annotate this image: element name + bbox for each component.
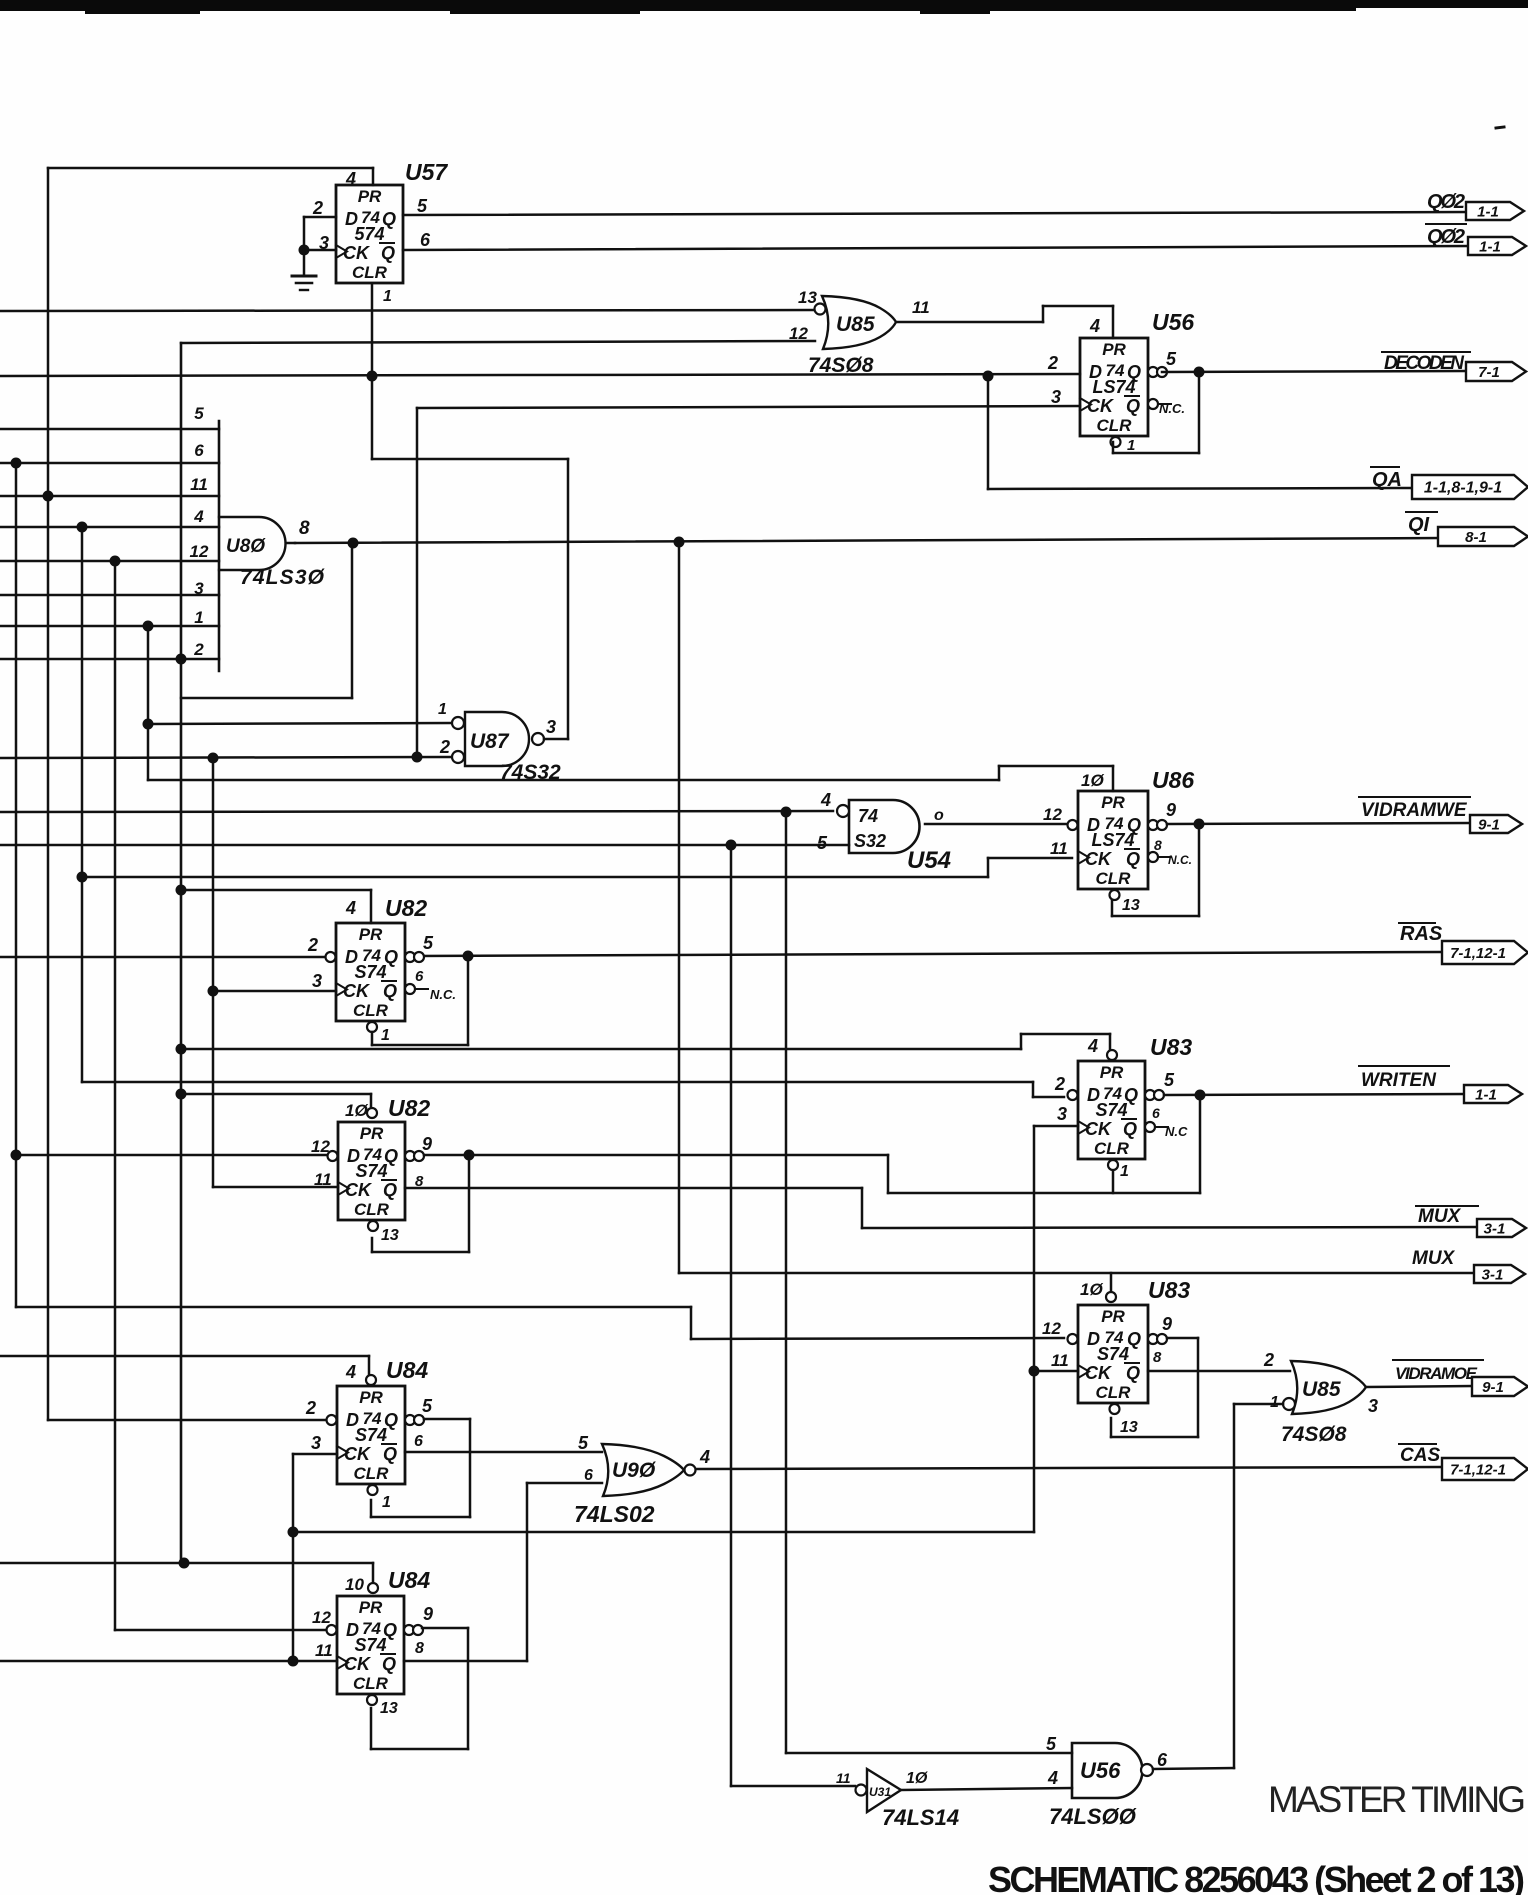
wire: input 12 from U8C bus top bbox=[181, 341, 815, 343]
label QI bbox=[1406, 511, 1437, 513]
vertical bus x16 bbox=[15, 463, 18, 1307]
svg-text:CK: CK bbox=[345, 1180, 373, 1200]
svg-text:10: 10 bbox=[345, 1575, 364, 1594]
wire: U87 output up to U57 CLR rail bbox=[544, 738, 568, 741]
flag QI 8-1 bbox=[1438, 527, 1528, 546]
svg-text:12: 12 bbox=[1042, 1319, 1061, 1338]
stray mark bbox=[1496, 127, 1504, 128]
svg-text:1: 1 bbox=[382, 1494, 391, 1511]
svg-text:9-1: 9-1 bbox=[1482, 1379, 1504, 1396]
svg-text:U83: U83 bbox=[1148, 1277, 1190, 1303]
svg-text:Q: Q bbox=[383, 1180, 397, 1200]
svg-text:12: 12 bbox=[311, 1137, 330, 1156]
wire: U83b PR stub bbox=[1110, 1273, 1113, 1292]
wire: net to U57 PR pin 4 bbox=[48, 167, 373, 170]
svg-text:4: 4 bbox=[1047, 1768, 1058, 1788]
wire: U84a CK input bbox=[293, 1453, 337, 1456]
wire: U82b D input bbox=[16, 1154, 327, 1157]
svg-text:5: 5 bbox=[578, 1433, 589, 1453]
svg-text:CLR: CLR bbox=[354, 1464, 390, 1483]
svg-text:8: 8 bbox=[1153, 1349, 1162, 1366]
wire: U31 input bbox=[731, 1785, 855, 1788]
svg-text:3: 3 bbox=[1051, 387, 1061, 407]
svg-text:574: 574 bbox=[354, 224, 384, 244]
svg-text:S74: S74 bbox=[355, 1161, 387, 1181]
svg-text:CLR: CLR bbox=[1097, 416, 1133, 435]
svg-text:S74: S74 bbox=[1097, 1344, 1129, 1364]
vertical rail x293 bbox=[292, 1454, 295, 1661]
wire: U57 Qbar to QP2bar flag bbox=[403, 246, 1473, 250]
wire: input 13 bbox=[0, 310, 814, 311]
svg-text:U9Ø: U9Ø bbox=[612, 1459, 656, 1482]
svg-text:11: 11 bbox=[836, 1770, 851, 1786]
svg-text:Q: Q bbox=[1126, 849, 1140, 869]
flag DECODEN 7-1 bbox=[1466, 362, 1526, 381]
svg-text:1: 1 bbox=[194, 608, 203, 627]
svg-text:1: 1 bbox=[1120, 1163, 1129, 1180]
wire: U82 D input bbox=[0, 956, 325, 959]
label QA bbox=[1371, 466, 1399, 468]
gate U56 (74LS00) bbox=[1072, 1743, 1142, 1798]
flag MUX 3-1 bbox=[1477, 1219, 1526, 1237]
svg-text:CLR: CLR bbox=[353, 1674, 389, 1693]
svg-text:QI: QI bbox=[1408, 514, 1430, 536]
svg-text:CK: CK bbox=[343, 243, 371, 263]
svg-text:6: 6 bbox=[414, 1433, 423, 1450]
svg-text:S32: S32 bbox=[854, 831, 886, 851]
wire: U31 output to U56 pin 4 bbox=[901, 1788, 1072, 1790]
svg-text:5: 5 bbox=[1046, 1734, 1057, 1754]
label WRITEN bbox=[1359, 1065, 1449, 1067]
flag QA 1-1,8-1,9-1 bbox=[1412, 475, 1528, 499]
svg-text:RAS: RAS bbox=[1400, 923, 1443, 945]
wire: U56 CLR loop bbox=[1112, 442, 1115, 453]
wire: U84a D input from x48 rail bbox=[48, 1419, 326, 1422]
svg-text:74LS3Ø: 74LS3Ø bbox=[240, 566, 325, 589]
svg-text:12: 12 bbox=[312, 1608, 331, 1627]
svg-text:8: 8 bbox=[299, 518, 310, 539]
svg-text:7-1,12-1: 7-1,12-1 bbox=[1450, 945, 1506, 962]
svg-text:4: 4 bbox=[345, 1362, 356, 1382]
svg-text:U82: U82 bbox=[385, 895, 427, 921]
wire: QI from U8C output bbox=[295, 538, 1442, 543]
svg-text:11: 11 bbox=[1050, 839, 1068, 858]
label VIDRAMOE bbox=[1393, 1359, 1483, 1361]
wire: U87 pin 2 input rail bbox=[0, 757, 452, 758]
gate U85 (74S08) bottom bbox=[1291, 1361, 1366, 1414]
wire: U83 CLR loop and tie to U82 Q9 bbox=[1112, 1172, 1115, 1193]
svg-text:1: 1 bbox=[1270, 1394, 1279, 1411]
wire: U83b Qbar to U85 pin 2 bbox=[1148, 1370, 1290, 1373]
svg-text:1: 1 bbox=[438, 701, 447, 718]
svg-text:2: 2 bbox=[1047, 353, 1058, 373]
svg-text:3: 3 bbox=[312, 971, 322, 991]
svg-text:74: 74 bbox=[858, 806, 878, 826]
junction dots on left bus bbox=[11, 458, 22, 469]
flip-flop U83b (74S74) bbox=[1068, 1305, 1168, 1414]
svg-text:3: 3 bbox=[546, 717, 556, 737]
svg-text:PR: PR bbox=[359, 1598, 383, 1617]
svg-text:MUX: MUX bbox=[1412, 1248, 1456, 1269]
svg-text:6: 6 bbox=[584, 1467, 593, 1484]
svg-text:4: 4 bbox=[345, 898, 356, 918]
svg-text:U8Ø: U8Ø bbox=[226, 536, 266, 557]
vertical CK net x1034 bbox=[1033, 1126, 1036, 1532]
vertical rail x731 bbox=[730, 845, 733, 1786]
wire: U83b D input bbox=[16, 1306, 691, 1309]
svg-text:PR: PR bbox=[359, 925, 383, 944]
wire: U56 output up to U85b pin 1 bbox=[1153, 1768, 1234, 1769]
wire: U83b Q loop bbox=[1167, 1337, 1198, 1340]
wire: U84b CK input rail / Qbar out bbox=[0, 1660, 337, 1663]
svg-text:Q: Q bbox=[1126, 396, 1140, 416]
svg-text:6: 6 bbox=[194, 441, 204, 460]
svg-text:2: 2 bbox=[307, 935, 318, 955]
wire: MUX2 from x679 rail bbox=[679, 1272, 1474, 1275]
svg-text:3: 3 bbox=[1368, 1396, 1378, 1416]
svg-text:4: 4 bbox=[1087, 1036, 1098, 1056]
label VIDRAMWE bbox=[1359, 796, 1470, 798]
gate U8C body bbox=[219, 517, 286, 570]
flag RAS 7-1,12-1 bbox=[1442, 941, 1528, 964]
flag WRITEN 1-1 bbox=[1464, 1085, 1522, 1103]
label MUX overlined bbox=[1416, 1205, 1478, 1207]
svg-text:N.C.: N.C. bbox=[430, 987, 456, 1002]
svg-text:QØ2: QØ2 bbox=[1427, 226, 1465, 248]
wire: U84b D input from x115 rail bbox=[115, 1629, 326, 1632]
svg-text:DECODEN: DECODEN bbox=[1384, 353, 1465, 374]
wire: U86 PR rail bbox=[148, 779, 999, 782]
svg-text:9-1: 9-1 bbox=[1478, 817, 1500, 834]
inverter U31 (74LS14) bbox=[867, 1769, 901, 1812]
svg-text:CK: CK bbox=[344, 1444, 372, 1464]
wire: U84a Q loop bbox=[424, 1418, 470, 1421]
svg-text:11: 11 bbox=[912, 298, 930, 317]
svg-text:74LS14: 74LS14 bbox=[882, 1805, 959, 1830]
svg-text:PR: PR bbox=[1101, 1307, 1125, 1326]
svg-text:Q: Q bbox=[1127, 1329, 1141, 1349]
U8C input wires bbox=[0, 428, 219, 431]
wire: U82 second PR rail bbox=[181, 1093, 371, 1096]
svg-text:N.C.: N.C. bbox=[1159, 401, 1185, 416]
vertical rail x352 U8C loop bbox=[351, 543, 354, 698]
svg-text:1: 1 bbox=[381, 1027, 390, 1044]
svg-text:2: 2 bbox=[1054, 1074, 1065, 1094]
svg-text:11: 11 bbox=[315, 1641, 333, 1660]
wire: QA branch bbox=[987, 376, 990, 489]
flag MUX2 3-1 bbox=[1474, 1265, 1525, 1283]
svg-text:U83: U83 bbox=[1150, 1034, 1192, 1060]
svg-text:CAS: CAS bbox=[1400, 1445, 1440, 1466]
svg-text:13: 13 bbox=[1122, 897, 1140, 914]
svg-text:3-1: 3-1 bbox=[1482, 1267, 1504, 1284]
wire: U90 pin 6 loop from U84b Qbar bbox=[527, 1482, 602, 1485]
svg-text:VIDRAMOE: VIDRAMOE bbox=[1395, 1364, 1478, 1383]
svg-text:U85: U85 bbox=[836, 313, 875, 336]
wire: U82b Q out to U83 CLR net bbox=[424, 1154, 888, 1157]
svg-text:WRITEN: WRITEN bbox=[1361, 1070, 1437, 1091]
svg-text:Q: Q bbox=[383, 1444, 397, 1464]
svg-text:5: 5 bbox=[194, 404, 204, 423]
svg-text:1Ø: 1Ø bbox=[1081, 771, 1104, 790]
svg-text:U56: U56 bbox=[1080, 1758, 1121, 1783]
svg-text:74LS02: 74LS02 bbox=[574, 1501, 655, 1527]
svg-text:U82: U82 bbox=[388, 1095, 430, 1121]
svg-text:PR: PR bbox=[1102, 340, 1126, 359]
flip-flop U56 (74LS74) bbox=[1080, 338, 1171, 447]
svg-text:12: 12 bbox=[190, 542, 209, 561]
wire: U56 Q pin 5 to DECODEN flag bbox=[1162, 371, 1466, 372]
svg-text:QA: QA bbox=[1372, 469, 1402, 491]
svg-text:74LSØØ: 74LSØØ bbox=[1049, 1804, 1137, 1829]
svg-text:5: 5 bbox=[417, 196, 428, 216]
svg-text:2: 2 bbox=[439, 737, 450, 757]
flag VIDRAMWE 9-1 bbox=[1470, 815, 1522, 833]
svg-text:U84: U84 bbox=[386, 1357, 428, 1383]
svg-text:1-1: 1-1 bbox=[1477, 204, 1499, 221]
vertical rail x679 from QI net bbox=[678, 542, 681, 1273]
svg-text:4: 4 bbox=[699, 1447, 710, 1467]
svg-text:4: 4 bbox=[193, 507, 204, 526]
svg-text:9: 9 bbox=[1166, 800, 1176, 820]
wire: U57 CLR net jog to U87 output rail bbox=[372, 458, 568, 461]
wire: U83 Q pin 5 to WRITEN flag bbox=[1164, 1094, 1464, 1095]
svg-text:3: 3 bbox=[1057, 1104, 1067, 1124]
svg-text:1: 1 bbox=[383, 288, 392, 305]
svg-text:U87: U87 bbox=[470, 730, 510, 753]
svg-text:U56: U56 bbox=[1152, 309, 1194, 335]
svg-text:1-1,8-1,9-1: 1-1,8-1,9-1 bbox=[1424, 480, 1502, 497]
flag VIDRAMOE 9-1 bbox=[1472, 1377, 1528, 1396]
ground bbox=[303, 250, 306, 275]
gate U90 (74LS02) bbox=[602, 1444, 684, 1496]
svg-text:QØ2: QØ2 bbox=[1427, 191, 1465, 213]
svg-text:5: 5 bbox=[1166, 349, 1177, 369]
svg-text:9: 9 bbox=[1162, 1314, 1172, 1334]
vertical bus x213 bbox=[212, 758, 215, 1187]
svg-text:PR: PR bbox=[359, 1388, 383, 1407]
svg-text:Q: Q bbox=[382, 1654, 396, 1674]
svg-text:1Ø: 1Ø bbox=[345, 1101, 368, 1120]
label QP2bar bbox=[1426, 223, 1466, 225]
svg-text:SCHEMATIC 8256043 (Sheet 2 of: SCHEMATIC 8256043 (Sheet 2 of 13) bbox=[988, 1859, 1525, 1895]
svg-text:5: 5 bbox=[1164, 1070, 1175, 1090]
svg-text:2: 2 bbox=[312, 198, 323, 218]
gate U8C (74LS30) input grid bbox=[180, 343, 183, 1563]
svg-text:U84: U84 bbox=[388, 1567, 430, 1593]
wire: U82 CK input bbox=[213, 990, 336, 993]
svg-text:8: 8 bbox=[1154, 837, 1162, 853]
wire: U57 CK input bbox=[304, 249, 336, 252]
svg-text:PR: PR bbox=[358, 187, 382, 206]
wire: U57 D input bbox=[304, 216, 336, 219]
svg-text:U86: U86 bbox=[1152, 767, 1194, 793]
vertical rail x786 bbox=[785, 812, 788, 1753]
svg-text:CLR: CLR bbox=[1096, 869, 1132, 888]
svg-text:Q: Q bbox=[381, 243, 395, 263]
scan artifact top bar bbox=[0, 0, 1528, 14]
wire: U82b CLR loop bbox=[371, 1238, 374, 1252]
wire: U82 PR pin 4 net bbox=[181, 889, 371, 892]
svg-text:7-1: 7-1 bbox=[1478, 364, 1500, 381]
svg-text:CLR: CLR bbox=[354, 1200, 390, 1219]
wire: U83 PR rail bbox=[181, 1048, 1021, 1051]
wire: U83b CK input bbox=[1034, 1370, 1078, 1373]
flip-flop U86 (74LS74) bbox=[1068, 791, 1172, 900]
flip-flop U83a (74S74) bbox=[1068, 1061, 1169, 1170]
wire: U85b pin1 net from U56 NAND output bbox=[1234, 1403, 1283, 1406]
wire: U84a Qbar to U90 pin 5 bbox=[405, 1451, 602, 1454]
svg-text:CK: CK bbox=[1085, 1363, 1113, 1383]
wire: U56 CK pin 3 net from U57 CLR rail bbox=[417, 406, 1080, 408]
flag QP2bar 1-1 bbox=[1468, 237, 1526, 255]
wire: U85 out to U56 PR bbox=[896, 321, 1043, 324]
svg-text:6: 6 bbox=[420, 230, 431, 250]
svg-text:2: 2 bbox=[305, 1398, 316, 1418]
svg-text:8: 8 bbox=[415, 1640, 424, 1657]
svg-text:CK: CK bbox=[1085, 1119, 1113, 1139]
svg-text:CLR: CLR bbox=[353, 1001, 389, 1020]
svg-text:13: 13 bbox=[798, 288, 817, 307]
flip-flop U82a (74S74) bbox=[326, 923, 429, 1032]
svg-text:LS74: LS74 bbox=[1091, 830, 1134, 850]
label RAS bbox=[1399, 922, 1435, 924]
svg-text:PR: PR bbox=[1100, 1063, 1124, 1082]
wire: U84b PR rail bbox=[0, 1562, 373, 1565]
flip-flop U57 (74574) bbox=[336, 185, 403, 283]
svg-text:o: o bbox=[934, 807, 944, 824]
svg-text:74SØ8: 74SØ8 bbox=[1281, 1423, 1347, 1446]
wire: U82b Qbar out to MUX bbox=[405, 1187, 862, 1190]
wire: U84 PR rail bbox=[0, 1355, 369, 1358]
svg-text:CLR: CLR bbox=[352, 263, 388, 282]
svg-text:Q: Q bbox=[383, 981, 397, 1001]
wire: U83 CK input bbox=[1034, 1125, 1078, 1128]
svg-text:11: 11 bbox=[1051, 1351, 1069, 1370]
svg-text:1-1: 1-1 bbox=[1475, 1087, 1497, 1104]
svg-text:U54: U54 bbox=[907, 847, 951, 874]
flip-flop U84a (74S74) bbox=[327, 1386, 425, 1495]
svg-text:8-1: 8-1 bbox=[1465, 529, 1487, 546]
svg-text:4: 4 bbox=[1089, 316, 1100, 336]
svg-text:PR: PR bbox=[1101, 793, 1125, 812]
wire: U82b CK input bbox=[213, 1186, 338, 1189]
wire: U85b output to VIDRAMOE flag bbox=[1366, 1386, 1472, 1387]
svg-text:12: 12 bbox=[1043, 805, 1062, 824]
svg-text:CLR: CLR bbox=[1094, 1139, 1130, 1158]
svg-text:MUX: MUX bbox=[1418, 1206, 1462, 1227]
svg-text:5: 5 bbox=[817, 833, 828, 853]
wire: U82 CLR loop bbox=[371, 1032, 374, 1045]
wire: U57 CLR pin 1 down to D-net bbox=[371, 285, 374, 459]
wire: full-width D net into U56 pin 2 bbox=[0, 374, 1080, 376]
wire: x293 net to U83 CK rail bbox=[293, 1531, 1034, 1534]
wire: U57 Q to QP2 flag bbox=[403, 212, 1471, 215]
svg-text:3-1: 3-1 bbox=[1484, 1221, 1506, 1238]
gate U85 (74S08) top bbox=[822, 296, 896, 349]
wire: U86 CLR loop bbox=[1111, 900, 1114, 916]
label CAS bbox=[1399, 1443, 1436, 1445]
svg-text:6: 6 bbox=[415, 968, 424, 985]
wire: U83 D rail bbox=[82, 1081, 1033, 1084]
svg-text:S74: S74 bbox=[1095, 1100, 1127, 1120]
svg-text:2: 2 bbox=[193, 640, 204, 659]
svg-text:PR: PR bbox=[360, 1124, 384, 1143]
wire: RAS from U82 Q to flag bbox=[414, 952, 1442, 956]
wire: U86 CK rail bbox=[82, 876, 988, 879]
svg-text:N.C.: N.C. bbox=[1168, 853, 1192, 867]
svg-text:U85: U85 bbox=[1302, 1378, 1341, 1401]
svg-text:13: 13 bbox=[381, 1227, 399, 1244]
svg-text:LS74: LS74 bbox=[1092, 377, 1135, 397]
svg-text:S74: S74 bbox=[355, 1425, 387, 1445]
svg-text:1-1: 1-1 bbox=[1479, 239, 1501, 256]
vertical bus x82 bbox=[81, 527, 84, 1082]
svg-text:Q: Q bbox=[1126, 1363, 1140, 1383]
vertical bus x115 bbox=[114, 561, 117, 1630]
svg-text:9: 9 bbox=[423, 1604, 433, 1624]
U85 input pin 13 bbox=[815, 304, 826, 315]
svg-text:2: 2 bbox=[1263, 1350, 1274, 1370]
svg-text:Q: Q bbox=[1123, 1119, 1137, 1139]
svg-text:1Ø: 1Ø bbox=[906, 1770, 928, 1787]
svg-text:7-1,12-1: 7-1,12-1 bbox=[1450, 1462, 1506, 1479]
flag CAS 7-1,12-1 bbox=[1442, 1458, 1528, 1480]
wire: U87 pin 1 input bbox=[148, 723, 452, 724]
flip-flop U84b (74S74) bbox=[327, 1596, 424, 1705]
label DECODEN bbox=[1382, 351, 1470, 353]
wire: U84b Q loop bbox=[422, 1627, 468, 1630]
svg-text:6: 6 bbox=[1152, 1105, 1160, 1121]
vertical bus x148 bbox=[147, 626, 150, 780]
svg-text:CK: CK bbox=[1085, 849, 1113, 869]
svg-text:13: 13 bbox=[380, 1700, 398, 1717]
wire: U54 pin 5 rail bbox=[0, 844, 849, 847]
svg-text:S74: S74 bbox=[354, 962, 386, 982]
svg-text:9: 9 bbox=[422, 1134, 432, 1154]
svg-text:CK: CK bbox=[344, 1654, 372, 1674]
gate U54 (74S32) bbox=[849, 800, 920, 853]
wire: U56 pin 5 input bbox=[786, 1752, 1072, 1755]
svg-text:N.C: N.C bbox=[1165, 1124, 1188, 1139]
svg-text:U31: U31 bbox=[869, 1785, 891, 1799]
wire: CAS from U90 out to flag bbox=[696, 1467, 1442, 1469]
svg-text:CLR: CLR bbox=[1096, 1383, 1132, 1402]
svg-text:4: 4 bbox=[820, 790, 831, 810]
svg-text:13: 13 bbox=[1120, 1419, 1138, 1436]
svg-text:MASTER TIMING: MASTER TIMING bbox=[1268, 1779, 1526, 1820]
gate U87 (74S32) bbox=[465, 712, 529, 766]
svg-text:S74: S74 bbox=[354, 1635, 386, 1655]
flip-flop U82b (74S74) bbox=[328, 1122, 425, 1231]
svg-text:CK: CK bbox=[1087, 396, 1115, 416]
svg-text:3: 3 bbox=[311, 1433, 321, 1453]
vertical bus x48 bbox=[47, 168, 50, 1420]
svg-text:5: 5 bbox=[422, 1396, 433, 1416]
wire: U54 pin 4 rail bbox=[0, 811, 833, 812]
wire: U54 output to U86 D bbox=[925, 823, 1066, 826]
svg-text:1Ø: 1Ø bbox=[1080, 1280, 1103, 1299]
svg-text:U57: U57 bbox=[405, 159, 448, 185]
svg-text:6: 6 bbox=[1157, 1750, 1168, 1770]
svg-text:VIDRAMWE: VIDRAMWE bbox=[1361, 800, 1468, 821]
svg-text:CK: CK bbox=[343, 981, 371, 1001]
svg-text:5: 5 bbox=[423, 933, 434, 953]
svg-text:11: 11 bbox=[190, 475, 208, 494]
flag QP2 1-1 bbox=[1466, 202, 1524, 220]
wire: U86 Q pin 9 to VIDRAMWE flag bbox=[1167, 823, 1471, 824]
svg-text:1: 1 bbox=[1127, 437, 1135, 454]
